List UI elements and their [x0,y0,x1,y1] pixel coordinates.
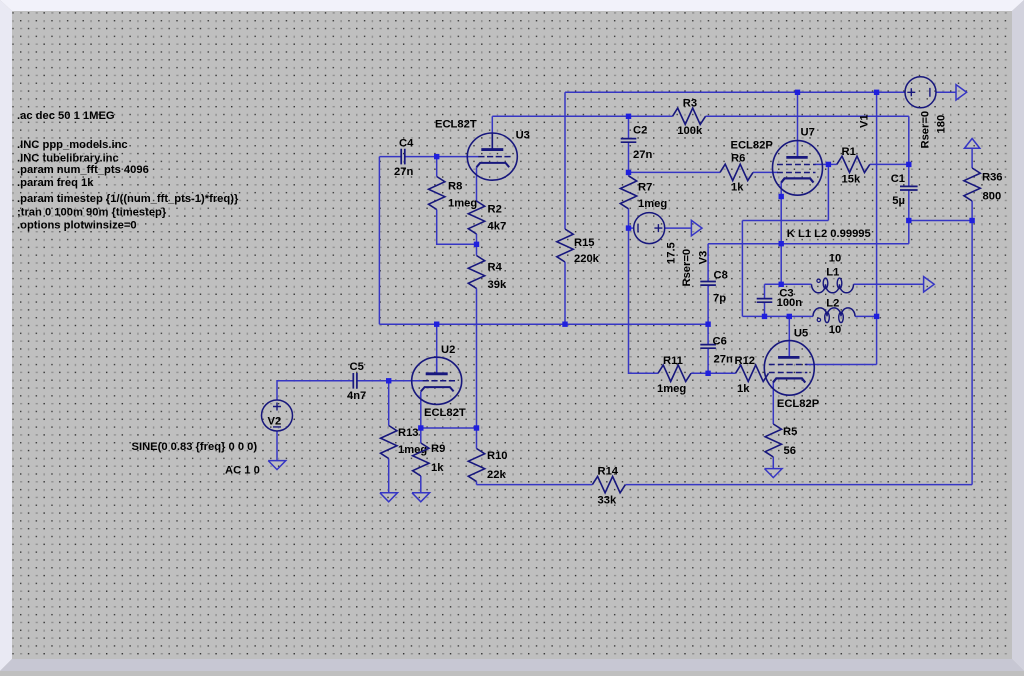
junction U5 plate at y316 [787,314,792,319]
svg-text:10: 10 [829,324,841,336]
inductor L1 [812,253,854,293]
junction U7 G2/R1 node [826,162,831,167]
svg-text:R10: R10 [487,450,508,462]
wire C4 left lead [379,156,401,158]
wire R15 top feed [564,92,566,229]
svg-text:;tran 0 100m 90m {timestep}: ;tran 0 100m 90m {timestep} [17,206,167,218]
wire U3 grid lead [437,156,479,158]
resistor R8 [429,177,478,210]
svg-text:33k: 33k [598,495,617,507]
ground under R13 [380,493,398,502]
wire V2 bottom lead [276,431,278,461]
svg-text:R2: R2 [488,204,502,216]
junction U7 cathode pin [779,194,784,199]
svg-text:4n7: 4n7 [347,390,366,402]
svg-text:Rser=0: Rser=0 [920,111,932,149]
junction C1 bottom node [906,218,911,223]
wire R36 top lead [971,148,973,168]
resistor R7 [620,176,667,210]
svg-text:17.5: 17.5 [665,242,677,264]
junction cathode rail at y243 [779,241,784,246]
svg-text:V1: V1 [858,114,870,128]
window frame bottom bevel [0,659,1024,671]
wire right vertical riser [971,221,973,485]
wire R7 bottom to V3 [628,209,630,228]
wire R13 bottom lead [388,459,390,493]
wire R2 bottom lead [476,234,478,244]
svg-text:C8: C8 [714,269,728,281]
wire B+ drop to L2 right [876,92,878,316]
resistor R14 [592,466,625,507]
svg-text:1k: 1k [431,462,444,474]
junction R4/R10 node [474,425,479,430]
junction C2/R7/R6 node [626,170,631,175]
svg-text:V3: V3 [698,251,710,265]
capacitor C2 [621,124,653,161]
pentode tube U5 (ECL82P) [764,327,819,410]
svg-text:39k: 39k [488,279,507,291]
svg-text:R8: R8 [448,180,462,192]
resistor R15 [557,229,600,265]
svg-text:22k: 22k [487,469,506,481]
svg-text:C2: C2 [633,124,647,136]
svg-text:C1: C1 [891,173,905,185]
wire V2 to C5 [277,381,353,400]
wire C3 bottom lead [764,302,766,316]
resistor R3 [673,98,706,137]
wire R36 lower lead [971,201,973,221]
svg-text:5µ: 5µ [892,195,905,207]
svg-text:R5: R5 [783,426,797,438]
svg-text:10: 10 [829,253,841,265]
wire U2 plate stem [436,324,438,357]
svg-text:R1: R1 [842,146,856,158]
wire U3 plate rail [492,115,909,117]
svg-text:15k: 15k [842,173,861,185]
wire U5 cathode lead [772,383,774,424]
wire R9 top lead [420,428,422,443]
svg-text:U3: U3 [516,129,530,141]
output port flag after L1 [924,277,935,292]
junction R7/V3 node [626,225,631,230]
wire C6 bottom lead [707,348,709,373]
junction C6/R11/R12 node [705,371,710,376]
wire R9 bottom lead [420,476,422,493]
svg-text:K L1 L2 0.99995: K L1 L2 0.99995 [787,228,871,240]
svg-text:180: 180 [936,115,948,134]
window frame top bevel [0,0,1024,11]
window frame right bevel [1012,0,1024,671]
wire V3 node down to R11 [629,228,659,373]
resistor R36 [964,168,1003,203]
svg-text:L2: L2 [826,297,839,309]
wire R36 bottom segment [909,220,972,222]
svg-text:R15: R15 [574,237,595,249]
svg-text:4k7: 4k7 [488,221,507,233]
svg-text:R36: R36 [982,172,1003,184]
svg-text:C4: C4 [399,137,414,149]
svg-text:220k: 220k [574,253,600,265]
junction C3 bottom at y316 [762,314,767,319]
wire cathode node y428 [421,427,477,429]
capacitor C8 [700,269,728,304]
junction R15 bottom at y324 [562,322,567,327]
svg-text:R12: R12 [735,355,756,367]
wire top B+ rail [565,91,905,93]
svg-text:.param num_fft_pts 4096: .param num_fft_pts 4096 [17,164,149,176]
spice directive text block [17,110,239,232]
junction R1/C1/R3 node [906,162,911,167]
wire R11 right lead [691,372,708,374]
svg-text:.INC tubelibrary.inc: .INC tubelibrary.inc [17,152,119,164]
wire U5 plate stem [788,316,790,357]
svg-text:.ac dec 50 1 1MEG: .ac dec 50 1 1MEG [17,110,115,122]
svg-text:R9: R9 [431,443,445,455]
svg-text:1k: 1k [737,383,750,395]
wire C2 bottom lead [628,142,630,172]
svg-text:SINE(0 0.83 {freq} 0 0 0): SINE(0 0.83 {freq} 0 0 0) [132,441,258,453]
wire R4 top lead [476,244,478,255]
junction R36 bottom node [969,218,974,223]
resistor R11 [657,355,691,395]
wire C8 top lead [707,244,709,282]
svg-text:1meg: 1meg [657,383,686,395]
wire U7 G2 down [827,164,829,220]
wire C3 top lead [764,284,766,298]
wire L1 left link [765,283,812,285]
junction R8/R2/R4 node [474,242,479,247]
svg-text:U7: U7 [801,127,815,139]
wire R12 left lead [708,372,735,374]
svg-text:27n: 27n [394,166,413,178]
wire C4 to U3 grid junction [405,156,437,158]
svg-text:100n: 100n [777,297,803,309]
resistor R6 [720,153,753,194]
junction U7 plate at B+ rail [795,90,800,95]
svg-text:Rser=0: Rser=0 [681,249,693,287]
svg-text:U5: U5 [794,327,808,339]
junction L1 left node [779,282,784,287]
svg-text:R14: R14 [598,466,619,478]
svg-text:.param timestep {1/((num_fft_p: .param timestep {1/((num_fft_pts-1)*freq… [17,193,239,205]
wire y220 cross [742,220,828,222]
wire R10 bottom lead [476,482,478,485]
resistor R1 [837,146,870,185]
net flag above R36 [964,139,979,149]
svg-text:ECL82P: ECL82P [777,398,820,410]
capacitor C4 [394,137,414,178]
wire R7 top lead [628,172,630,175]
svg-text:R4: R4 [488,262,503,274]
output port flag after V1 [956,85,967,100]
wire U7 G2 lead [815,163,828,165]
svg-text:1meg: 1meg [638,198,667,210]
wire C1 top lead [908,164,910,186]
ground under R9 [412,493,430,502]
svg-text:ECL82T: ECL82T [424,407,466,419]
ground under V2 [268,461,286,470]
wire y324 rail [379,323,708,325]
wire U7 cathode drop [780,182,782,284]
junction U2 plate at y324 [434,322,439,327]
window frame left bevel [0,0,12,671]
wire U2 cathode drop [420,391,422,428]
wire U7 plate to B+ rail [797,92,799,157]
resistor R2 [468,201,506,234]
junction U2 grid node [386,378,391,383]
svg-text:.param freq 1k: .param freq 1k [17,177,94,189]
triode tube U3 (ECL82T) [435,118,530,180]
wire R1 left lead [828,163,836,165]
wire R4 bottom long drop [476,289,478,429]
junction B+ drop at rail [874,90,879,95]
wire bottom feedback rail [477,484,973,486]
wire R13 top lead [388,381,390,426]
net flag after V3 [691,220,702,235]
capacitor C6 [700,336,733,366]
svg-text:56: 56 [784,445,796,457]
wire R15 bottom lead [564,262,566,324]
svg-text:800: 800 [983,191,1002,203]
svg-text:.INC ppp_models.inc: .INC ppp_models.inc [17,139,128,151]
voltage source V2 [132,400,293,477]
junction L2 right node [874,314,879,319]
wire U3 cathode to R2 [476,167,478,201]
wire x742 drop [741,221,743,317]
wire U5 G2 lead [806,364,877,366]
svg-text:ECL82P: ECL82P [731,140,774,152]
voltage source V3 [634,213,710,287]
wire R8 bottom to R2 node [437,210,477,245]
junction U2 cathode/R9 node [418,425,423,430]
wire U5 G2 riser [876,316,878,364]
svg-text:R6: R6 [731,153,745,165]
svg-text:R11: R11 [663,355,683,367]
resistor R13 [381,426,428,459]
inductor L2 [813,297,855,336]
wire junction to R6 [629,171,721,173]
resistor R12 [735,355,769,395]
wire y316 transformer rail [742,315,813,317]
wire V1 plus to port [936,91,956,93]
svg-text:100k: 100k [677,125,703,137]
svg-text:AC 1 0: AC 1 0 [225,465,260,477]
junction U3 grid node [434,154,439,159]
wire down to R1 node [908,116,910,164]
wire R8 top lead [436,157,438,177]
svg-text:R7: R7 [638,181,652,193]
wire C8 bottom lead [707,285,709,324]
wire C5 to U2 grid junction [357,380,389,382]
wire C4 left loop vertical [378,157,380,325]
svg-text:1k: 1k [731,181,744,193]
junction C2 top node [626,114,631,119]
wire R10 top lead [476,428,478,449]
wire V3 left lead [629,227,634,229]
capacitor C5 [347,361,366,402]
resistor R9 [413,443,446,476]
svg-text:C5: C5 [350,361,364,373]
svg-text:U2: U2 [441,344,455,356]
resistor R5 [765,424,797,457]
wire C1 bottom lead [908,190,910,221]
wire C2 top lead [628,116,630,138]
wire C6 top lead [707,324,709,344]
pentode tube U7 (ECL82P) [731,127,823,195]
svg-text:1meg: 1meg [398,444,427,456]
wire L1 to output port [854,283,924,285]
capacitor C1 [891,173,918,207]
wire U3 plate stem [491,116,493,149]
wire R6 to U7 grid [753,171,778,173]
svg-text:ECL82T: ECL82T [435,118,477,130]
svg-text:C6: C6 [713,336,727,348]
capacitor C3 [757,287,803,309]
svg-text:R3: R3 [683,98,697,110]
svg-text:.options plotwinsize=0: .options plotwinsize=0 [17,220,137,232]
resistor R10 [468,449,507,482]
svg-text:L1: L1 [826,267,839,279]
wire V3 plus to port [665,227,692,229]
wire U2 grid lead [389,380,423,382]
wire C8 rail up [908,221,910,244]
wire L2 right lead [855,315,877,317]
triode tube U2 (ECL82T) [412,344,466,419]
wire R5 bottom lead [772,457,774,469]
voltage source V1 [858,77,947,149]
svg-text:7p: 7p [713,293,726,305]
svg-text:27n: 27n [714,353,733,365]
wire C8 top rail [708,243,909,245]
junction C8 at y324 [705,322,710,327]
svg-text:R13: R13 [398,427,419,439]
svg-text:27n: 27n [633,149,652,161]
ground under R5 [765,469,783,478]
svg-text:V2: V2 [268,416,282,428]
resistor R4 [468,256,507,292]
wire R1 right lead [870,163,909,165]
svg-text:1meg: 1meg [448,198,477,210]
